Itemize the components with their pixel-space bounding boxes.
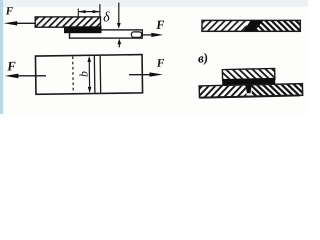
svg-text:в): в) <box>197 50 209 66</box>
svg-text:F: F <box>156 58 165 70</box>
svg-text:F: F <box>6 58 17 73</box>
svg-text:δ: δ <box>103 10 111 25</box>
svg-text:b: b <box>78 71 90 77</box>
svg-text:F: F <box>5 5 14 17</box>
svg-text:F: F <box>155 18 165 32</box>
